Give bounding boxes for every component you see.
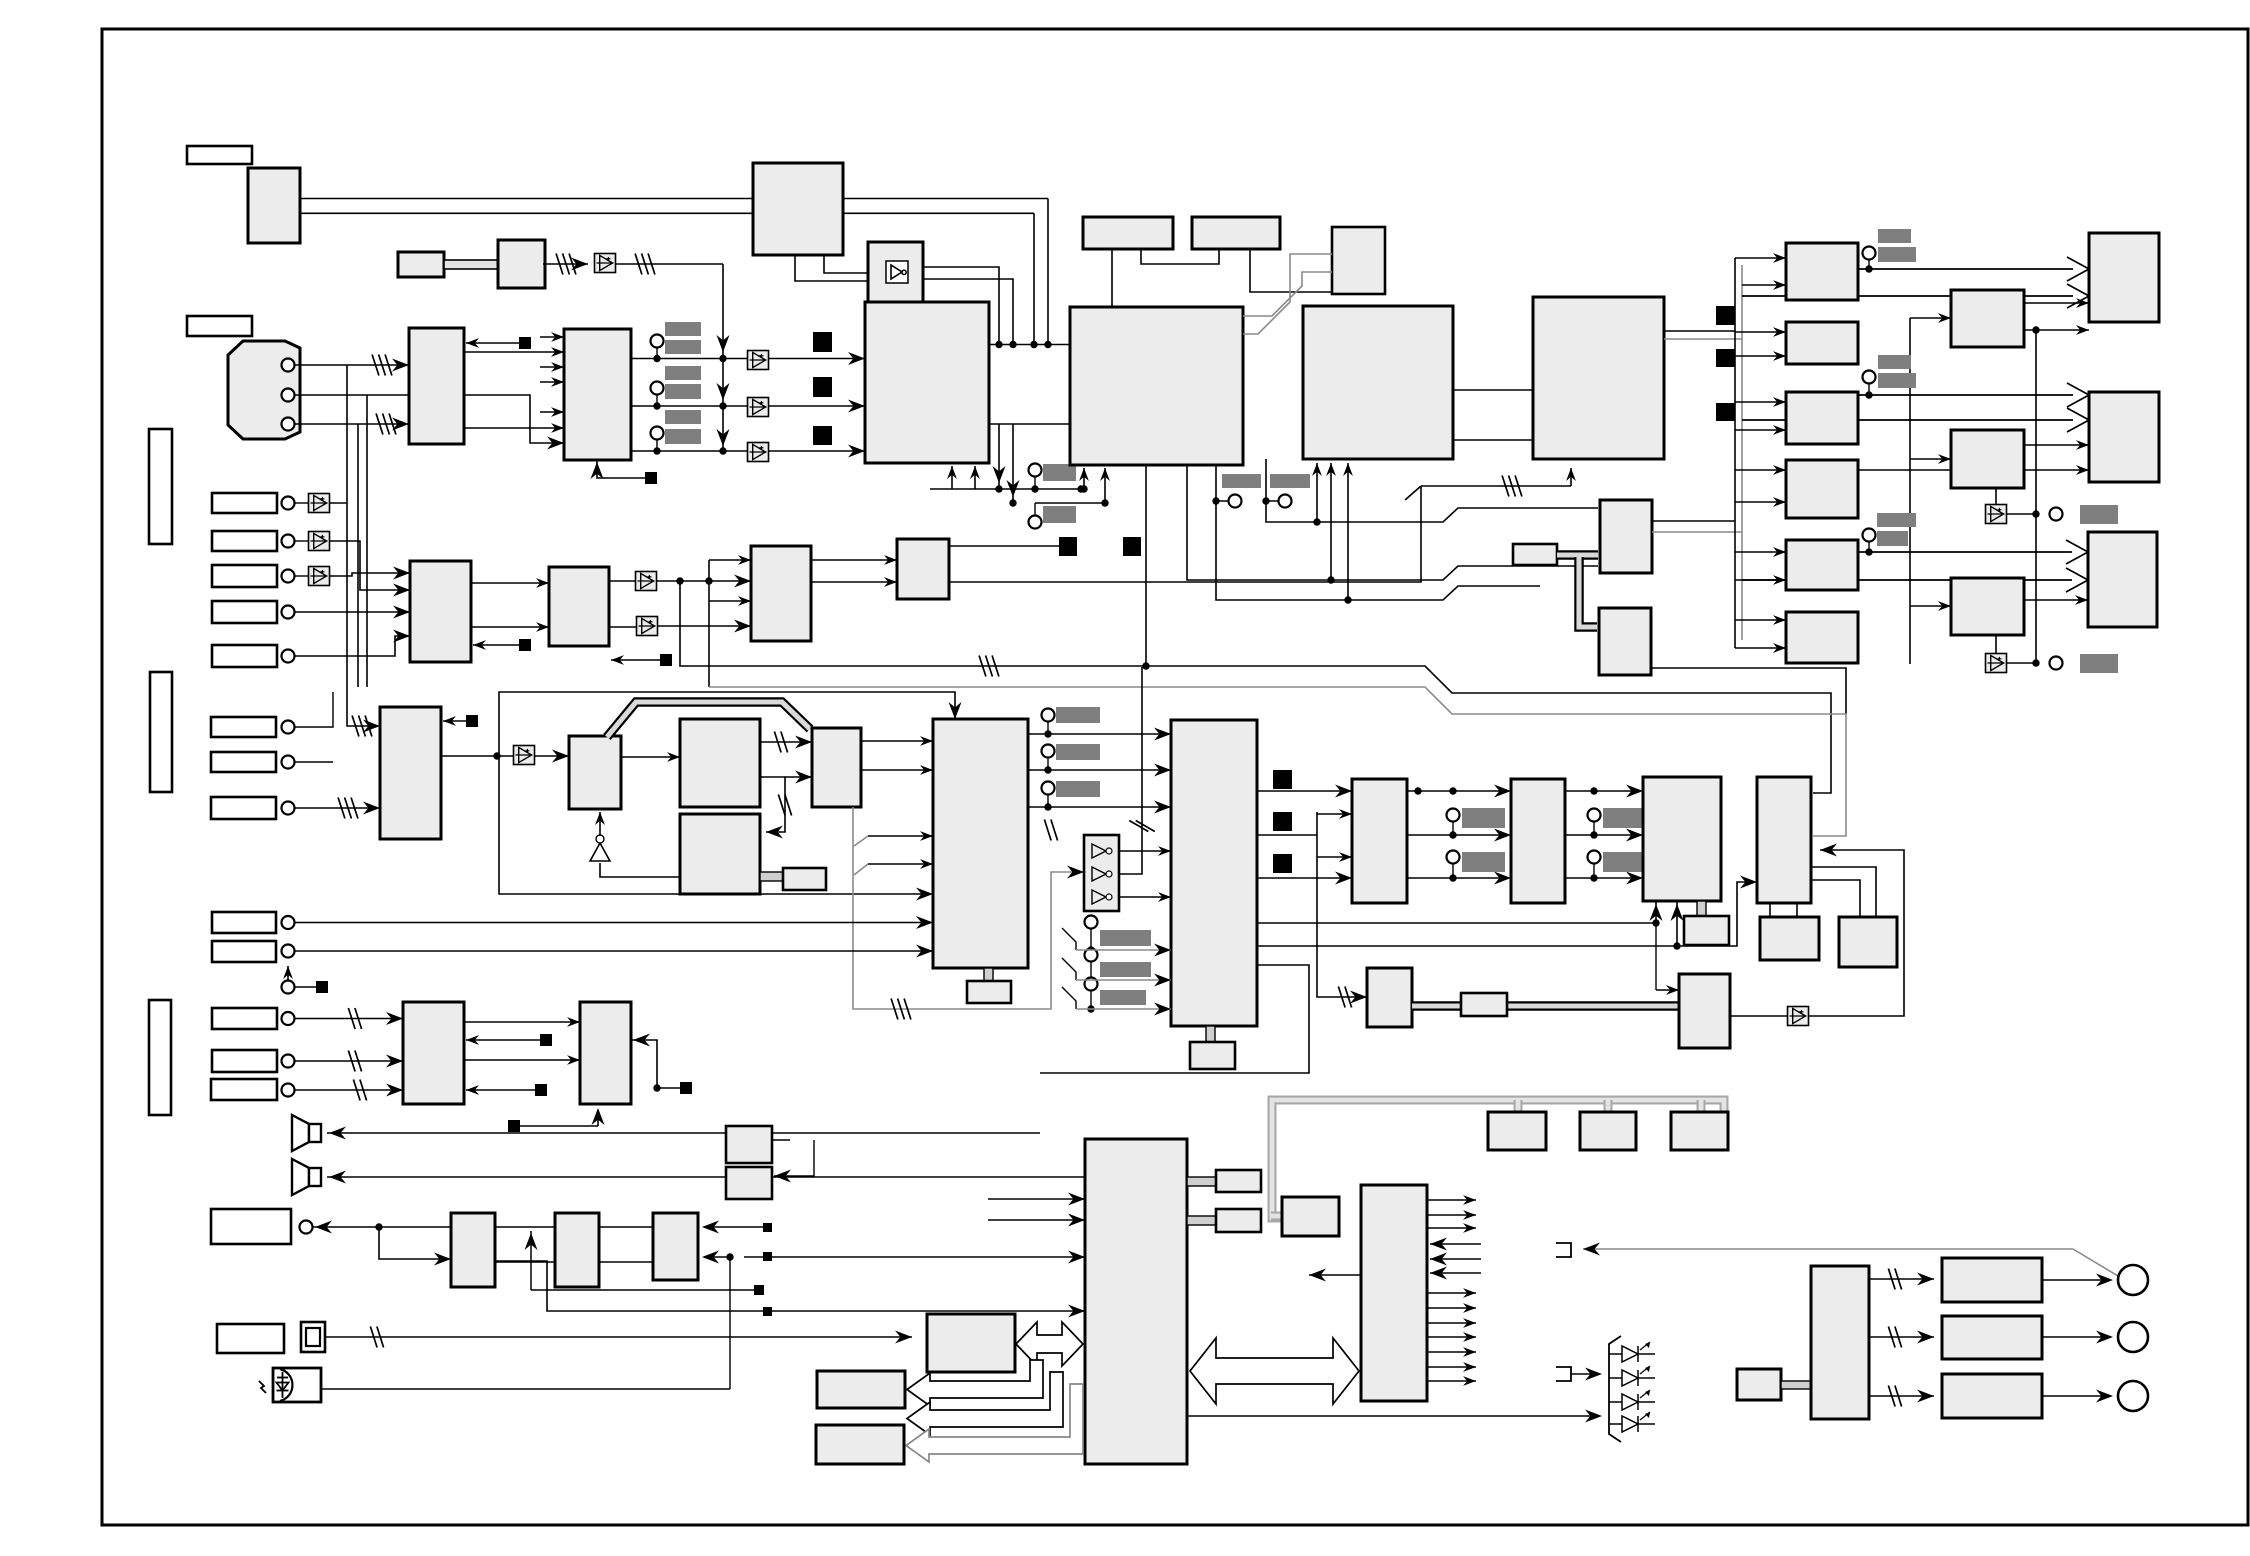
mute square S1 <box>813 332 832 352</box>
block G video processor <box>1070 307 1243 465</box>
diode3 wire right <box>2006 662 2036 664</box>
diode box D4 <box>748 443 769 462</box>
block N3 <box>580 1002 631 1104</box>
terminal Q2r <box>1042 745 1055 758</box>
diode box N1 <box>514 746 535 765</box>
block Q2 system micom <box>1085 1139 1187 1464</box>
light arrow <box>259 1381 266 1393</box>
block PSc <box>1671 1112 1728 1150</box>
control square into C <box>466 342 525 344</box>
diode box D3 <box>748 398 769 417</box>
terminal set3 <box>1863 529 1876 542</box>
K outputs down to EG wire <box>923 267 999 345</box>
square M4a <box>1059 537 1077 556</box>
block J <box>1303 306 1453 459</box>
CN1 pin 2 <box>282 389 295 402</box>
terminal mid c <box>1588 809 1601 822</box>
terminal AUX2 <box>282 945 295 958</box>
bar mid c <box>1603 808 1646 828</box>
block W3 <box>816 1425 904 1464</box>
diode S3 <box>309 567 330 586</box>
wire bus to RbigA 2 <box>1742 295 2073 297</box>
terminal Q1 <box>1042 709 1055 722</box>
bar at diode2 <box>2080 505 2118 524</box>
wire to jack1 <box>2042 1279 2110 1281</box>
link AO1 to AMP <box>1781 1381 1811 1389</box>
wire R5 to RbigC <box>1858 551 2072 553</box>
gray power bus <box>1272 1100 1724 1218</box>
E bottom wire <box>930 488 1081 490</box>
wires J-L <box>1453 389 1533 391</box>
speaker SP2 <box>292 1159 309 1195</box>
block Q2a <box>1216 1170 1261 1192</box>
wires from S labels to M1 <box>329 502 347 504</box>
AMP out row 1 <box>1869 1278 1934 1280</box>
squares row V3 <box>763 1223 772 1232</box>
terminal c2 <box>651 382 664 395</box>
block R7 audio switch <box>1171 720 1257 1026</box>
terminal S1 <box>282 497 295 510</box>
N2 squares <box>466 1039 540 1041</box>
LD left out arrow <box>1309 1274 1361 1276</box>
wire R1 to RbigA <box>1858 268 2073 270</box>
value bars left column <box>665 322 701 336</box>
wire M4 out to L bottom <box>949 486 1421 582</box>
block RbigB <box>2089 392 2159 482</box>
Rmid2 output <box>2024 444 2089 446</box>
wire from right to bracket <box>1583 1248 2073 1250</box>
wire pin3 branch down to block N1 <box>357 424 359 687</box>
Q pedestal <box>984 968 993 982</box>
vertical Rmid chain <box>2035 330 2037 663</box>
connector bracket top <box>1556 1243 1571 1257</box>
wire B3 to diode D1 <box>543 263 588 265</box>
block R2 <box>1786 322 1858 364</box>
Td down wires to LBb <box>1811 867 1876 917</box>
block PSa <box>1488 1112 1546 1150</box>
wire to SP2 <box>327 1176 1085 1178</box>
wires bars to R7 <box>1062 928 1076 950</box>
D bottom control square <box>597 460 645 478</box>
block MB3 <box>1599 608 1651 675</box>
R7 out wire 1 <box>1257 790 1344 792</box>
diode S2 <box>309 532 330 551</box>
block W2 <box>817 1371 905 1408</box>
square bus S5 <box>1716 349 1735 367</box>
jack3 <box>2118 1381 2148 1411</box>
Q right wires to R7 <box>1028 733 1171 735</box>
R7 out wire 3 <box>1257 877 1344 879</box>
bracket feeds M3 <box>708 560 710 687</box>
Q tab block <box>967 981 1011 1003</box>
label box B1 <box>212 1008 277 1029</box>
block Rmid1 <box>1951 290 2024 347</box>
terminals for bars <box>1085 916 1098 929</box>
block I <box>1332 227 1385 294</box>
jack2 <box>2118 1322 2148 1352</box>
branch to Td input <box>1677 882 1750 946</box>
R7 input bars rows <box>1100 930 1151 946</box>
LEDs <box>1609 1353 1655 1355</box>
terminal AUX1 <box>282 916 295 929</box>
bar mid b <box>1462 852 1505 872</box>
block P4 <box>812 728 861 807</box>
connector polygon CN1 <box>228 341 300 439</box>
block Rmid2 <box>1951 430 2024 488</box>
label box RC <box>211 1209 291 1244</box>
wire P8 to diode <box>1730 1015 1788 1017</box>
block AOUT1 <box>1942 1258 2042 1302</box>
label box L1 <box>187 146 252 164</box>
square M4b <box>1123 537 1141 556</box>
vertical 1317 <box>1317 812 1367 997</box>
label box SW <box>217 1324 284 1353</box>
jog arrows into Q <box>854 836 868 846</box>
wire m2 to M3 <box>657 625 751 627</box>
wire RC from Q2 <box>313 1226 451 1228</box>
block B2 small <box>398 252 444 277</box>
Td stubs to LBa <box>1769 903 1771 917</box>
wire bus to RbigC 2 <box>1742 579 2072 581</box>
tall connector box T2 <box>150 672 172 792</box>
terminal c1 <box>651 335 664 348</box>
verticals to bottom terminals <box>998 424 1000 489</box>
block R1 <box>1786 243 1858 300</box>
wire to jack2 <box>2042 1336 2110 1338</box>
wire D out3 to block E <box>631 450 865 452</box>
block Td amplifier 2 <box>1757 777 1811 903</box>
block PSb <box>1580 1112 1636 1150</box>
wires V1-V2-V3 <box>495 1226 555 1228</box>
W0 wires <box>774 1140 814 1176</box>
wire to L bottom <box>1421 485 1571 487</box>
diode under Rmid3 <box>1995 635 1997 654</box>
F to K stubs <box>795 255 868 281</box>
block LD LED driver <box>1361 1185 1427 1401</box>
block E audio DSP <box>865 302 989 463</box>
block Rmid3 <box>1951 578 2024 635</box>
terminal mid b <box>1447 851 1460 864</box>
wires to Q2 <box>772 1256 1085 1258</box>
block R3 <box>1786 392 1858 444</box>
label box AUX2 <box>212 941 276 962</box>
Rmid2 input <box>1910 458 1951 460</box>
inverter bank <box>1084 835 1119 911</box>
link P3 to P6 <box>760 872 783 881</box>
block MB2 <box>1600 500 1652 573</box>
Rmid1 input <box>1910 317 1951 319</box>
G bottom stub loop 2 <box>1216 465 1540 600</box>
bar 2 under E <box>1043 506 1076 523</box>
block P2 <box>680 719 760 807</box>
label box S2 <box>212 531 277 551</box>
wire CN1 pin3 to block C <box>295 423 409 425</box>
Rmid3 output <box>2024 599 2088 601</box>
block P6 <box>783 868 826 890</box>
wires sum <box>295 922 933 924</box>
block A antenna input <box>248 168 300 243</box>
LED array bracket <box>1609 1336 1621 1442</box>
block C input selector <box>409 328 464 444</box>
thick bus P1 to P4 <box>607 702 810 737</box>
thick audio bus <box>1412 1001 1679 1011</box>
wire m1 to M3 <box>656 580 751 582</box>
switch icon <box>301 1322 325 1352</box>
block R4 <box>1786 460 1858 518</box>
wires L2b to Tc <box>1565 790 1634 792</box>
block W1 memory <box>927 1314 1015 1372</box>
G bottom stub loop 1 <box>1187 465 1598 580</box>
wire SW to W1 <box>325 1336 912 1338</box>
label box S4 <box>212 601 277 623</box>
terminal S2 <box>282 535 295 548</box>
down arrows into E input wires <box>717 335 730 352</box>
wires P2 out <box>760 741 812 743</box>
bank wires <box>1119 850 1171 852</box>
wire M4 to square <box>949 545 1059 547</box>
M2 control square <box>611 659 660 661</box>
jack1 <box>2118 1265 2148 1295</box>
block H2 <box>1192 217 1280 249</box>
wire D out2 to block E <box>631 405 865 407</box>
tall connector box T1 <box>149 429 172 544</box>
terminal Q3r <box>1042 782 1055 795</box>
wires from lower labels <box>295 692 333 727</box>
block J2 <box>1352 779 1407 903</box>
N1 output diode wire <box>441 755 569 757</box>
gray wires G to I <box>1243 272 1332 316</box>
wire tuner outputs to matrix <box>300 198 1048 200</box>
lower label boxes <box>211 717 276 737</box>
block P8 <box>1679 974 1730 1048</box>
routing loop rectangle <box>499 692 955 894</box>
thick bus MB1 to MB2/MB3 <box>1557 550 1598 560</box>
right distribution bus <box>1734 258 1736 648</box>
terminal mid d <box>1588 851 1601 864</box>
wire R7 loop down <box>1040 965 1309 1073</box>
AMP out row 2 <box>1869 1336 1934 1338</box>
label box S3 <box>212 565 277 587</box>
wires C to D <box>464 351 564 353</box>
R7 tab block <box>1190 1042 1235 1069</box>
block MB1 crystal <box>1513 544 1557 565</box>
block Q tuner controller <box>933 719 1028 968</box>
Tc tab block <box>1684 916 1729 945</box>
Td feedback wire <box>1807 850 1904 1016</box>
label box L2 <box>187 316 252 336</box>
LD output arrows <box>1427 1199 1476 1201</box>
block M2 <box>549 567 609 646</box>
gray bus to Q3 <box>1271 1212 1282 1221</box>
block H1 <box>1083 217 1173 249</box>
Rmid3 input <box>1910 605 1951 607</box>
block LBa <box>1760 917 1819 960</box>
block N1 <box>380 707 441 839</box>
R7 pedestal <box>1206 1026 1215 1042</box>
block AOUT3 <box>1942 1374 2042 1418</box>
diode S1 <box>309 494 330 513</box>
label box AUX1 <box>212 912 276 933</box>
block B3 <box>498 240 545 288</box>
block Q2b <box>1216 1209 1261 1232</box>
big two-way bus arrow <box>1190 1338 1359 1404</box>
label box S1 <box>212 493 277 513</box>
bar mid a <box>1462 808 1505 828</box>
terminal c3 <box>651 427 664 440</box>
MB2 outputs to bus <box>1652 520 1735 522</box>
photo receiver <box>273 1368 321 1402</box>
diode under Rmid2 <box>1995 488 1997 505</box>
terminal mid a <box>1447 809 1460 822</box>
AMP out row 3 <box>1869 1395 1934 1397</box>
MB3 output <box>1651 668 1846 714</box>
block Tc amplifier <box>1643 777 1721 901</box>
branch to V3 <box>704 1257 730 1389</box>
wire P1 to P2 <box>621 756 680 758</box>
mute square S3 <box>813 426 832 445</box>
connector bracket bottom <box>1556 1367 1571 1381</box>
block V2 <box>555 1213 599 1287</box>
block P3 <box>680 814 760 894</box>
block V1 <box>451 1213 495 1287</box>
diode box D2 <box>748 351 769 370</box>
block L <box>1533 297 1664 459</box>
block Q3 <box>1282 1197 1339 1236</box>
label box B3 <box>211 1079 277 1100</box>
Rmid input bus <box>1909 318 1911 664</box>
lower terminal wire <box>1035 502 1105 504</box>
terminal S4 <box>282 606 295 619</box>
wires J2 to L2b <box>1407 790 1503 792</box>
square bus S6 <box>1716 403 1735 421</box>
N1 control square <box>443 720 478 722</box>
block L2b <box>1511 779 1565 903</box>
square bus S4 <box>1716 306 1735 325</box>
bar mid d <box>1603 852 1646 872</box>
block M3 <box>751 546 811 641</box>
long run A <box>680 581 1831 793</box>
wires L to right bus <box>1664 330 1735 332</box>
vertical from P4 down <box>853 807 1084 1009</box>
wires M1 to M2 <box>471 582 549 584</box>
R7 out wire 2 <box>1257 834 1317 836</box>
arrow up join <box>530 1231 532 1290</box>
wires N2 to N3 <box>464 1021 580 1023</box>
block M1 <box>410 561 471 662</box>
block AO1 pre <box>1737 1369 1781 1400</box>
wire CN1 pin2 to block D <box>295 395 564 443</box>
diode m1 <box>609 580 636 582</box>
diode m2 <box>609 626 637 628</box>
wire pin1 branch down to block N1 <box>347 365 374 726</box>
terminal set1 <box>1863 247 1876 260</box>
bar Q2r <box>1056 744 1100 760</box>
H1/H2 stubs <box>1111 249 1113 307</box>
block P1 <box>569 736 621 809</box>
block R5 <box>1786 540 1858 590</box>
terminal with square <box>282 981 295 994</box>
two-way bus arrow <box>1016 1322 1083 1366</box>
wires labels to N2 <box>295 1018 403 1020</box>
long run B gray <box>709 687 1846 836</box>
M1 control square <box>473 644 525 646</box>
terminal S3 <box>282 570 295 583</box>
wires P4 to Q <box>861 740 933 742</box>
inverter feeding P1 <box>599 812 601 838</box>
bars under G <box>1222 474 1261 488</box>
CN1 pin 1 <box>282 359 295 372</box>
wire D1 to down-distribution <box>615 263 723 265</box>
outline arrow mid <box>907 1372 1063 1435</box>
wires R7 to Tc bottom <box>1257 901 1656 923</box>
bars set2 <box>1878 355 1911 369</box>
CN1 pin 3 <box>282 418 295 431</box>
Tc pedestal <box>1697 901 1706 916</box>
wire D out1 to block E <box>631 358 865 360</box>
Q2 right links <box>1187 1177 1216 1186</box>
terminal 2 under E <box>1029 516 1042 529</box>
block K buffer <box>868 242 923 302</box>
terminal RC <box>300 1221 313 1234</box>
terminal under E <box>1029 464 1042 477</box>
diode2 wire right <box>2006 513 2036 515</box>
wire R3 to RbigB <box>1858 394 2073 396</box>
V1 bottom wire <box>496 1261 772 1311</box>
link B2-B3 <box>444 260 498 269</box>
block R6 <box>1786 612 1858 663</box>
J bottom stub loop <box>1266 459 1598 522</box>
outline arrow to W2 <box>907 1360 1043 1406</box>
wire to SP1 <box>327 1132 1040 1134</box>
wire bus to RbigB 2 <box>1742 419 2073 421</box>
G bottom stub 3 <box>1145 465 1147 666</box>
block M4 <box>897 539 949 599</box>
branch pin2 down <box>366 395 368 687</box>
terminal S5 <box>282 650 295 663</box>
arrow into P8 top <box>1655 923 1657 990</box>
label box B2 <box>212 1050 277 1072</box>
N3 squares <box>631 1040 680 1088</box>
block D matrix <box>564 329 631 460</box>
wire to jack3 <box>2042 1395 2110 1397</box>
outline arrow to W3 gray <box>906 1384 1083 1462</box>
inline block on bus <box>1461 993 1507 1016</box>
block RbigC <box>2088 532 2157 627</box>
diode box P8 <box>1788 1007 1809 1026</box>
block W0b <box>726 1167 772 1199</box>
bars set1 <box>1878 229 1911 243</box>
bar Q3r <box>1056 781 1100 797</box>
block P7 <box>1367 968 1412 1027</box>
label box S5 <box>212 645 277 667</box>
bar under E <box>1043 464 1076 481</box>
wire R4 out <box>1858 469 2089 471</box>
wire E-G upper <box>989 344 1070 346</box>
block V3 <box>653 1213 698 1280</box>
mute square S2 <box>813 377 832 397</box>
wires M3 to M4 <box>811 559 897 561</box>
block AMP tall <box>1811 1266 1869 1419</box>
bar Q1 <box>1056 707 1100 723</box>
R7 squares <box>1273 770 1292 789</box>
bars set3 <box>1877 513 1916 527</box>
tall connector box T3 <box>149 1000 171 1115</box>
bar at diode3 <box>2080 654 2118 673</box>
block LBb <box>1839 917 1897 967</box>
Rmid1 outputs <box>2024 302 2089 304</box>
wire E-G lower <box>989 423 1070 425</box>
wire photo to Q2 <box>321 1388 730 1390</box>
